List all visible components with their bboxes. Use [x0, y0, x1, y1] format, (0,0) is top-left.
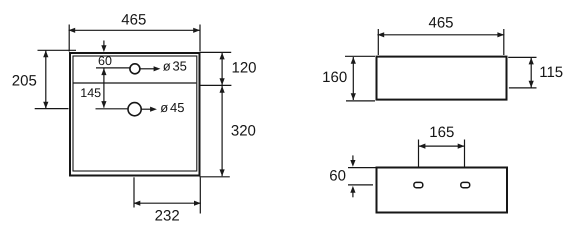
dim 165 left arrowhead	[419, 144, 426, 149]
dim 232 left arrowhead	[134, 201, 141, 206]
drain hole circle ø45	[128, 103, 141, 116]
dim 115 extension line bottom	[509, 87, 537, 89]
dim 115 bottom arrowhead	[529, 81, 534, 88]
dim 145 lower arrowhead	[101, 101, 106, 108]
basin body (side view)	[377, 168, 508, 213]
dim 115 top arrowhead	[529, 58, 534, 65]
dim 320 top arrowhead	[220, 86, 225, 93]
dim 160 top arrowhead	[351, 57, 356, 64]
dim 465 (top view) left arrowhead	[68, 28, 75, 33]
dim 160 extension line top	[345, 55, 375, 57]
dim 205 top arrowhead	[43, 50, 48, 57]
dim 320 dimension line	[221, 86, 223, 176]
svg-text:320: 320	[231, 122, 256, 139]
faucet hole leader line	[96, 67, 130, 69]
svg-text:60: 60	[98, 54, 112, 68]
dim 60 (side view) lower arrow	[352, 192, 354, 197]
dim 60/145 shared vertical line	[103, 69, 105, 108]
dim 160 dimension line	[352, 57, 354, 100]
dim 320 bottom arrowhead	[220, 169, 225, 176]
dim 160 extension line bottom	[346, 100, 375, 102]
svg-text:205: 205	[12, 73, 37, 90]
dim 165 right arrowhead	[458, 144, 465, 149]
dim 320 extension line bottom	[200, 176, 230, 178]
dim 120 bottom arrowhead	[220, 78, 225, 85]
dim 465 (top view) right arrowhead	[193, 28, 200, 33]
basin inner rim line	[73, 56, 197, 171]
dim 165 dimension line	[419, 145, 465, 147]
svg-text:ø35: ø35	[163, 58, 187, 73]
dim 232 extension line left (hole axis)	[133, 177, 135, 207]
svg-text:60: 60	[329, 168, 346, 185]
dim 165 extension line right	[464, 140, 466, 167]
svg-text:465: 465	[121, 11, 146, 28]
dim 60 (side view) extension line bottom (slot axis)	[348, 184, 373, 186]
svg-text:145: 145	[80, 86, 101, 100]
faucet hole pointer arrow	[140, 68, 155, 70]
dim 232 right arrowhead	[194, 201, 201, 206]
dim 232 extension line right	[199, 177, 201, 213]
drain hole leader line	[96, 108, 128, 110]
dim 205 extension line top	[38, 49, 77, 51]
dim 465 (front view) right arrowhead	[497, 32, 504, 37]
dim 120 dimension line	[221, 53, 223, 86]
dim 465 (front view) extension line left	[377, 29, 379, 55]
dim 120 extension line top	[201, 51, 232, 53]
dim 465 (front view) extension line right	[503, 29, 505, 55]
svg-text:165: 165	[429, 124, 454, 141]
dim 165 extension line left	[418, 140, 420, 167]
dim 60 (top view) upper arrow above rim	[103, 41, 105, 47]
mounting slot right	[461, 182, 470, 187]
dim 205 dimension line	[45, 50, 47, 108]
dim 60 (side view) upper arrow	[352, 155, 354, 161]
dim 160 bottom arrowhead	[351, 93, 356, 100]
svg-text:ø45: ø45	[160, 100, 184, 115]
svg-text:115: 115	[539, 64, 563, 81]
dim 205 extension line bottom	[35, 108, 69, 110]
drain hole pointer arrow	[141, 108, 151, 110]
dim 120/320 extension line middle	[201, 84, 232, 86]
dim 115 dimension line	[530, 58, 532, 88]
svg-text:120: 120	[231, 60, 256, 77]
dim 205 bottom arrowhead	[43, 102, 48, 109]
svg-text:160: 160	[322, 69, 347, 86]
dim 465 (top view) extension line right	[199, 25, 201, 52]
basin outer body (top view)	[70, 53, 200, 176]
basin body (front view)	[377, 57, 507, 100]
dim 465 (front view) dimension line	[377, 34, 504, 36]
svg-text:232: 232	[155, 207, 180, 224]
dim 120 top arrowhead	[220, 53, 225, 60]
dim 465 (top view) extension line left	[68, 25, 70, 52]
dim 115 extension line top	[508, 56, 536, 58]
dim 465 (front view) left arrowhead	[377, 32, 384, 37]
svg-text:465: 465	[428, 15, 453, 32]
dim 232 dimension line	[134, 202, 201, 204]
rear deck divider line	[74, 82, 197, 84]
faucet hole circle ø35	[130, 64, 140, 74]
mounting slot left	[414, 182, 423, 187]
dim 465 (top view) dimension line	[69, 29, 201, 31]
dim 60 lower / 145 upper arrowhead	[101, 68, 106, 75]
dim 60 (side view) extension line top	[348, 167, 376, 169]
